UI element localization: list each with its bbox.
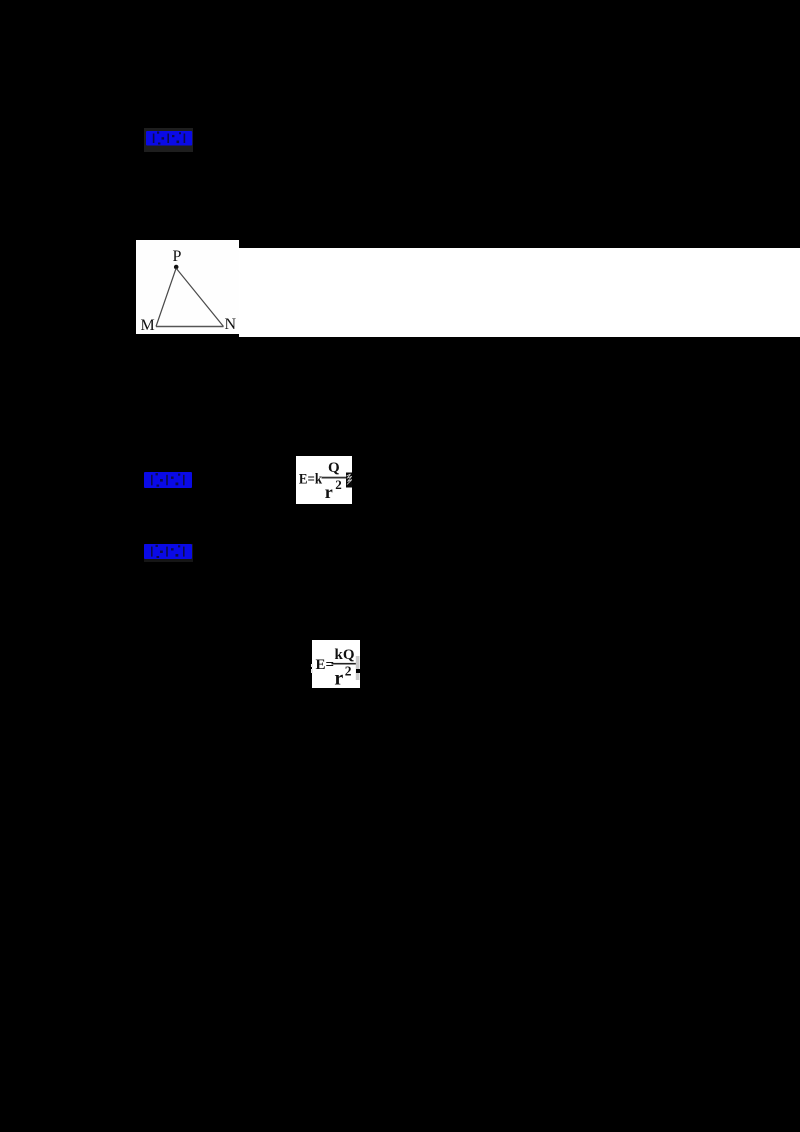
svg-text:P: P xyxy=(173,247,182,264)
light gray strip at right edge xyxy=(356,656,360,680)
point dot at P xyxy=(174,264,179,269)
triangle drawing xyxy=(136,240,239,334)
label 2 blue text 【答案】 xyxy=(144,472,193,489)
label 3 dark backdrop xyxy=(144,544,193,562)
triangle figure white box xyxy=(136,240,239,334)
svg-text:r: r xyxy=(334,668,343,688)
formula 2 white box: E=kQ/r^2 xyxy=(312,640,360,688)
svg-text:2: 2 xyxy=(345,664,352,679)
formula 1 white box: E=k Q/r^2 xyxy=(296,456,352,504)
fraction bar xyxy=(322,477,351,479)
svg-text:N: N xyxy=(225,315,237,332)
wide white strip xyxy=(239,248,800,337)
side PM xyxy=(156,268,176,326)
white specks left of formula 2 box xyxy=(311,664,313,667)
dark cut-off glyph at right edge xyxy=(346,473,352,488)
side PN xyxy=(176,268,223,326)
label box 1 (dark backdrop) xyxy=(144,128,193,152)
svg-text:M: M xyxy=(141,317,155,334)
small black square right of formula 2 xyxy=(356,669,360,673)
base MN xyxy=(156,325,224,327)
fraction bar xyxy=(332,663,357,665)
svg-text:E=: E= xyxy=(316,657,335,673)
svg-text:2: 2 xyxy=(335,477,342,492)
svg-text:r: r xyxy=(325,482,333,502)
svg-text:Q: Q xyxy=(328,460,340,476)
svg-text:E=k: E=k xyxy=(299,471,323,487)
label 1 blue text 【题文】 xyxy=(146,131,193,146)
label 3 blue text 【解析】 xyxy=(144,544,193,560)
svg-text:kQ: kQ xyxy=(335,647,355,663)
